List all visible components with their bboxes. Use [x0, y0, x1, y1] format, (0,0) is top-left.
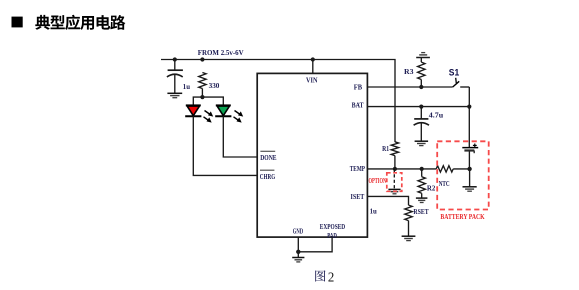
svg-text:1u: 1u: [183, 82, 191, 91]
wire S1 to BAT node: [468, 87, 470, 107]
svg-text:FB: FB: [354, 82, 362, 91]
svg-text:2: 2: [328, 269, 334, 284]
power rail symbol above R3: [416, 53, 430, 58]
resistor 330: [199, 73, 206, 98]
junction battery/NTC: [467, 167, 471, 171]
junction FB/R3: [419, 85, 423, 89]
svg-text:VIN: VIN: [306, 76, 318, 85]
optional dashed wire TEMP to ground: [393, 169, 395, 189]
svg-text:CHRG: CHRG: [260, 172, 275, 181]
svg-text:4.7u: 4.7u: [429, 111, 444, 120]
svg-text:GND: GND: [293, 227, 304, 236]
op-amp/charger IC U1 body: [257, 73, 367, 237]
resistor R1: [391, 142, 398, 169]
ground R2: [416, 198, 428, 202]
junction rail/VIN: [311, 57, 315, 61]
title bullet square: [12, 17, 23, 28]
ground OPTION: [388, 189, 400, 193]
svg-text:FROM 2.5v-6V: FROM 2.5v-6V: [198, 48, 244, 57]
OPTION dashed box: [387, 173, 402, 192]
wire D1 cathode to CHRG pin: [193, 116, 257, 175]
BATTERY PACK dashed box: [437, 141, 489, 209]
junction BAT/C2: [419, 105, 423, 109]
wire FB line: [367, 86, 452, 88]
wire EXPOSED PAD pin: [298, 237, 332, 252]
battery plus sign: [473, 144, 477, 148]
wire LED branch: [193, 97, 223, 105]
wire NTC to battery node: [453, 168, 469, 170]
resistor R3: [418, 58, 425, 88]
wire VIN pin: [312, 60, 314, 74]
resistor R2: [418, 169, 425, 198]
switch S1: [453, 78, 470, 87]
ground C1: [167, 93, 182, 97]
svg-text:R1: R1: [382, 144, 389, 153]
capacitor C1 1u: [167, 60, 183, 94]
junction LED branch: [200, 95, 204, 99]
svg-text:330: 330: [209, 81, 220, 90]
svg-text:BAT: BAT: [352, 101, 364, 110]
resistor RSET: [405, 205, 412, 236]
svg-text:NTC: NTC: [439, 180, 450, 188]
caption 图 2: [315, 269, 334, 284]
wire junction to ground: [297, 252, 299, 258]
wire D2 cathode to DONE pin: [223, 116, 257, 157]
ground GND pin: [292, 258, 304, 262]
svg-text:R3: R3: [404, 67, 414, 76]
thermistor NTC: [436, 166, 453, 172]
LED D2 green: [215, 105, 243, 122]
svg-text:BATTERY PACK: BATTERY PACK: [440, 213, 485, 221]
LED D1 red: [185, 105, 213, 122]
svg-text:R2: R2: [427, 184, 436, 193]
junction TEMP/R2: [420, 167, 424, 171]
wire VIN rail FROM 2.5v-6V: [161, 60, 395, 143]
svg-text:S1: S1: [449, 68, 459, 78]
wire ISET line: [367, 196, 408, 205]
battery BT1: [462, 107, 478, 169]
junction GND/EXPOSED: [296, 250, 300, 254]
wire battery minus to ground: [469, 169, 471, 187]
svg-text:DONE: DONE: [260, 153, 276, 162]
svg-text:EXPOSED: EXPOSED: [320, 222, 346, 231]
junction BAT/S1: [467, 105, 471, 109]
title text 典型应用电路: [35, 15, 125, 30]
wire TEMP line: [367, 168, 436, 170]
capacitor C2 4.7u: [414, 107, 429, 142]
svg-text:ISET: ISET: [351, 192, 365, 201]
svg-text:TEMP: TEMP: [350, 164, 365, 173]
junction TEMP/R1/OPTION: [393, 167, 397, 171]
wire GND pin: [297, 237, 299, 252]
svg-text:RSET: RSET: [413, 207, 428, 216]
junction rail/R330: [200, 57, 204, 61]
svg-text:1u: 1u: [370, 206, 378, 215]
ground battery pack: [463, 187, 477, 191]
ground RSET: [402, 236, 416, 240]
ground C2: [415, 141, 429, 145]
svg-text:OPTION: OPTION: [369, 177, 387, 185]
junction rail/C1: [173, 57, 177, 61]
wire BAT line: [367, 106, 469, 108]
